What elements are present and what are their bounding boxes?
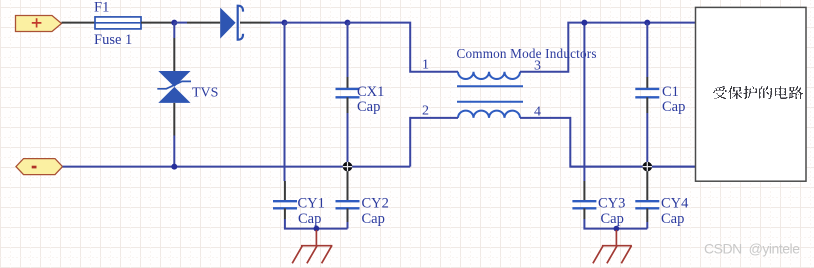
CY4 top pin [646, 171, 648, 202]
wire [584, 219, 647, 229]
CX1 top pin [347, 77, 349, 89]
wire bottom rail to inductor pin 2 [410, 118, 458, 167]
CY3 bottom pin [583, 208, 585, 219]
capacitor CY3 [572, 201, 596, 208]
capacitor CY2 [336, 201, 360, 208]
junction node B [282, 20, 288, 26]
inductor L1 bottom winding [458, 111, 520, 118]
wire [285, 22, 348, 24]
wire [347, 113, 349, 167]
svg-text:C1: C1 [662, 84, 679, 100]
junction node F [581, 20, 587, 26]
TVS branch: wire [173, 23, 175, 38]
wire [173, 136, 175, 167]
CY4 bottom pin [646, 208, 648, 222]
wire [285, 219, 348, 229]
CY1 bottom pin [284, 208, 286, 219]
svg-text:CY4: CY4 [661, 196, 689, 212]
wire (diode anode pin) [187, 22, 220, 24]
wire (diode cathode pin) [240, 22, 270, 24]
fuse F1 [95, 17, 141, 29]
wire bottom rail right [570, 166, 695, 168]
wire [646, 222, 648, 229]
junction node C2 (big) [343, 162, 353, 172]
TVS D2 [157, 71, 191, 103]
diode D1 [220, 6, 243, 40]
junction node H [614, 226, 620, 232]
wire [270, 22, 285, 24]
junction node G2 (big) [643, 162, 653, 172]
TVS bottom pin [173, 103, 175, 136]
wire inductor pin 4 down to bottom-right rail [520, 118, 696, 167]
C1 bottom pin [646, 97, 648, 113]
inductor L1 top winding [458, 72, 520, 79]
wire to inductor pin 1 [348, 23, 459, 72]
wire from pin 3 to top-right rail [520, 23, 696, 72]
svg-text:CX1: CX1 [357, 84, 384, 100]
wire bottom rail left [63, 166, 411, 168]
capacitor CX1 branch: wire [347, 23, 349, 77]
junction node G [644, 20, 650, 26]
CY3 top pin [583, 181, 585, 201]
capacitor CY1 [273, 201, 297, 208]
svg-text:Cap: Cap [357, 99, 380, 115]
capacitor CX1 [336, 89, 360, 97]
wire CY1 branch [284, 23, 286, 181]
svg-text:CSDN @yintele: CSDN @yintele [704, 241, 800, 257]
svg-text:TVS: TVS [192, 86, 218, 101]
svg-text:Cap: Cap [298, 211, 321, 227]
svg-text:1: 1 [422, 58, 429, 73]
port P1 (+) [16, 16, 62, 32]
CY1 top pin [284, 181, 286, 201]
svg-text:Cap: Cap [661, 211, 684, 227]
svg-text:F1: F1 [94, 0, 109, 15]
inductor L1 core [457, 86, 523, 102]
CY2 bottom pin [347, 208, 349, 222]
CY2 top pin [347, 171, 349, 202]
svg-text:2: 2 [422, 104, 429, 119]
wire C1 branch [646, 23, 648, 77]
junction node C [345, 20, 351, 26]
earth ground 2 [593, 230, 632, 263]
svg-text:Common Mode Inductors: Common Mode Inductors [457, 46, 597, 61]
svg-text:Fuse 1: Fuse 1 [94, 32, 132, 48]
svg-text:CY3: CY3 [598, 196, 625, 212]
svg-text:CY2: CY2 [362, 196, 389, 212]
earth ground 1 [292, 230, 332, 263]
CX1 bottom pin [347, 97, 349, 113]
wire [646, 113, 648, 167]
svg-text:Cap: Cap [601, 211, 624, 227]
label 受保护的电路 (drawn as pixel rects) [713, 86, 803, 99]
junction node A [171, 20, 177, 26]
wire [62, 22, 96, 24]
port P2 (-) [16, 159, 63, 175]
TVS top pin [173, 38, 175, 71]
svg-text:CY1: CY1 [298, 196, 325, 212]
junction node E [314, 226, 320, 232]
C1 top pin [646, 77, 648, 89]
wire CY3 branch [583, 23, 585, 181]
svg-text:Cap: Cap [662, 99, 685, 115]
protected circuit box U1 [696, 7, 807, 181]
capacitor C1 [635, 89, 659, 97]
capacitor CY4 [635, 201, 659, 208]
wire [174, 22, 187, 24]
wire [347, 222, 349, 229]
junction node D [171, 164, 177, 170]
svg-text:Cap: Cap [362, 211, 385, 227]
wire [141, 22, 174, 24]
